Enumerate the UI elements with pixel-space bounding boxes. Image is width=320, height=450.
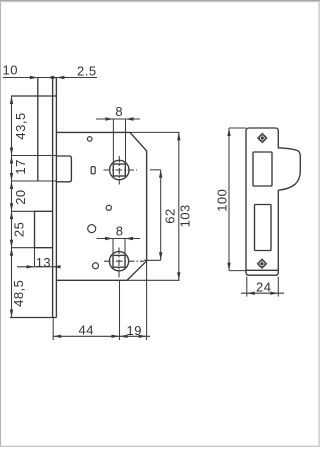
- screw hole bottom: [257, 259, 266, 268]
- follower bottom centerlines: [104, 260, 144, 262]
- latch bolt retracted (inside case): [56, 156, 71, 182]
- screw hole top: [258, 133, 267, 142]
- bottom dims 44/19: [52, 318, 54, 341]
- dim 103: [178, 132, 180, 280]
- chain arrow bottom: [10, 310, 13, 318]
- svg-text:13: 13: [36, 255, 51, 270]
- svg-text:103: 103: [177, 204, 192, 227]
- follower bottom square: [113, 255, 125, 267]
- svg-text:19: 19: [127, 323, 142, 338]
- deadbolt extended box: [35, 211, 53, 247]
- dim 10/2.5 line: [3, 77, 97, 79]
- dim 103 arrows: [177, 132, 180, 140]
- bend line near bottom: [246, 269, 278, 271]
- top border highlight: [0, 1, 320, 3]
- svg-text:8: 8: [115, 104, 123, 119]
- arrow to 56.4 from right: [56, 76, 64, 79]
- diamond at 52.6: [49, 76, 56, 80]
- svg-text:25: 25: [12, 222, 27, 237]
- dim 44/19 arrows: [53, 335, 61, 338]
- follower U1 top: circle: [110, 160, 129, 179]
- dim 100: [229, 127, 246, 129]
- ext lines above plate: [52, 78, 54, 97]
- deadbolt front extension down to 13-dim: [34, 248, 36, 267]
- arrow to 37.8: [30, 76, 38, 79]
- dim 13 arrows: [27, 265, 35, 268]
- dim 24 arrows: [247, 292, 255, 295]
- svg-text:100: 100: [214, 189, 229, 212]
- left dimension chain line: [11, 96, 13, 318]
- small obround hole: [91, 167, 95, 174]
- svg-text:10: 10: [3, 63, 18, 78]
- dim 8 top extension lines: [112, 119, 114, 163]
- dim 8 bottom: [97, 238, 141, 240]
- latch top line (chain ext): [11, 155, 56, 157]
- follower top square: [113, 164, 125, 176]
- chain arrows at 181: [10, 173, 13, 189]
- chain arrows at 155.5: [10, 148, 13, 164]
- dim 62: [150, 169, 161, 171]
- svg-text:48,5: 48,5: [11, 280, 26, 307]
- chain arrows at 211.3: [10, 203, 13, 219]
- dim 8 top arrows: [105, 117, 113, 120]
- screw hole circle top: [87, 137, 92, 142]
- dim 8 bottom extension lines: [112, 239, 114, 255]
- chain arrows at 247.7: [10, 240, 13, 256]
- latch extended front line / extension of 10-dim: [37, 78, 39, 182]
- deadbolt bottom chain ext: [11, 247, 35, 249]
- deadbolt top chain ext: [11, 210, 35, 212]
- top border line: [0, 0, 320, 2]
- small circle bottom: [93, 263, 99, 269]
- svg-text:43,5: 43,5: [13, 112, 28, 139]
- dim 8 top: [96, 118, 140, 120]
- svg-text:2.5: 2.5: [77, 64, 97, 79]
- dim 13: [17, 266, 60, 268]
- dim 24: [246, 277, 248, 297]
- lock case outline: [56, 132, 146, 280]
- case bottom extension line to 103 dim: [127, 279, 180, 281]
- svg-text:17: 17: [13, 159, 28, 174]
- strike plate outline with lip: [246, 128, 300, 275]
- svg-text:20: 20: [13, 189, 28, 204]
- svg-text:44: 44: [79, 323, 94, 338]
- case top extension line to 103 dim: [130, 131, 180, 133]
- deadbolt cutout: [255, 205, 272, 251]
- svg-text:8: 8: [116, 224, 124, 239]
- dim 8 bottom arrows: [105, 237, 113, 240]
- follower bottom: circle: [109, 252, 128, 271]
- dim 100 arrows: [227, 128, 230, 136]
- faceplate (edge view): [10, 78, 56, 318]
- chain arrow top: [10, 96, 13, 104]
- small circle mid case: [106, 205, 111, 210]
- dim 62 arrows: [159, 170, 162, 178]
- svg-text:62: 62: [163, 208, 178, 223]
- follower top centerlines: [104, 169, 138, 171]
- larger circle lower left: [88, 225, 96, 233]
- latch bottom line (chain ext): [11, 180, 56, 182]
- svg-text:24: 24: [256, 280, 271, 295]
- latch cutout: [253, 152, 272, 186]
